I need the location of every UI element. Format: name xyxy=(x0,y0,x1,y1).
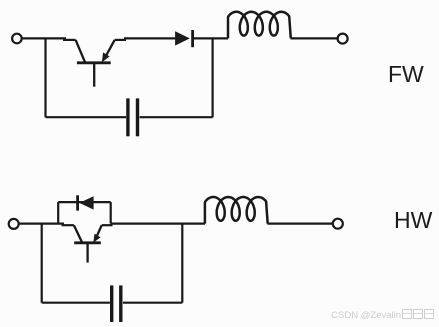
output terminal (FW) xyxy=(338,34,348,44)
input terminal (HW) xyxy=(9,219,19,229)
input terminal (FW) xyxy=(12,34,22,44)
transistor Q1 xyxy=(76,40,115,87)
wire bottom left HW xyxy=(42,302,110,304)
inductor L2 xyxy=(205,197,268,224)
inductor L1 xyxy=(228,12,291,39)
diode D2 xyxy=(79,196,93,209)
capacitor C1 xyxy=(128,98,138,136)
wire right branch HW xyxy=(181,224,183,303)
freewheel diode top wire xyxy=(58,201,110,203)
watermark xyxy=(331,309,434,321)
wire bottom right xyxy=(140,116,213,118)
diode D1 xyxy=(175,31,190,45)
wire bottom left xyxy=(46,116,127,118)
wire stub right of transistor HW xyxy=(102,224,113,226)
freewheel diode loop left xyxy=(57,202,59,224)
wire bottom right HW xyxy=(123,302,182,304)
output terminal (HW) xyxy=(333,219,343,229)
wire input to transistor xyxy=(22,37,66,39)
label HW xyxy=(394,207,432,234)
wire coil to output HW xyxy=(268,223,333,225)
wire diode to coil xyxy=(194,37,228,39)
wire coil to output xyxy=(291,37,338,39)
wire transistor to diode xyxy=(124,37,175,39)
wire stub left of transistor HW xyxy=(62,224,74,226)
transistor Q2 arrow xyxy=(93,234,100,243)
freewheel diode loop right xyxy=(110,202,112,224)
capacitor C2 xyxy=(112,285,121,322)
transistor Q2 xyxy=(74,225,102,262)
transistor Q1 arrow xyxy=(102,52,110,62)
node junction left HW xyxy=(41,224,43,303)
wire stub left of transistor xyxy=(63,39,76,41)
label FW xyxy=(388,61,424,88)
wire stub right of transistor xyxy=(115,39,126,41)
wire transistor to coil HW xyxy=(111,223,205,225)
wire right branch xyxy=(212,38,214,117)
wire input to transistor xyxy=(19,223,64,225)
node junction left xyxy=(44,38,46,117)
